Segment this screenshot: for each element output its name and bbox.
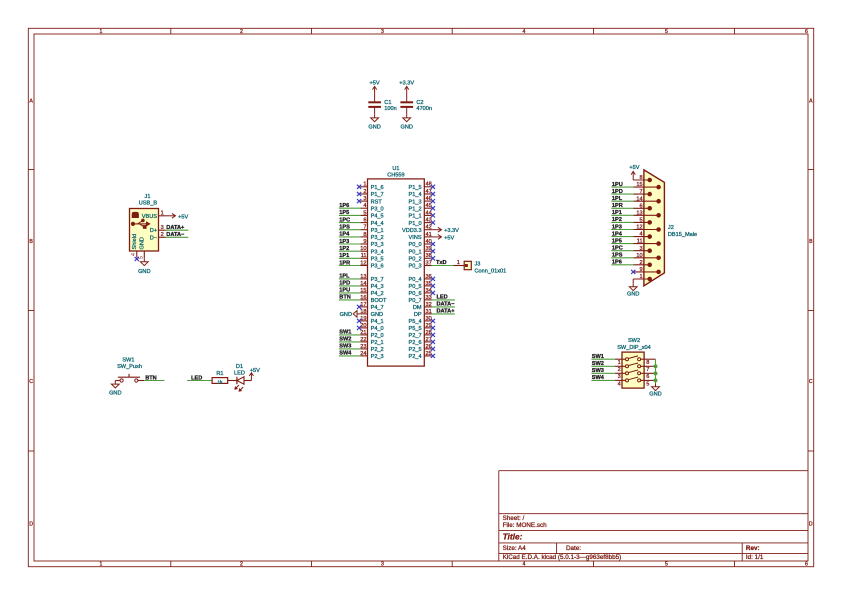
wire net 1PU (U1 pin 15) <box>339 292 360 294</box>
svg-text:P0_2: P0_2 <box>409 257 422 263</box>
svg-text:P2_7: P2_7 <box>409 333 422 339</box>
svg-text:P4_5: P4_5 <box>371 214 384 220</box>
svg-text:Conn_01x01: Conn_01x01 <box>475 268 507 274</box>
svg-text:P1_5: P1_5 <box>409 185 422 191</box>
power +3.3V (C2) <box>399 81 414 95</box>
svg-text:BTN: BTN <box>339 295 351 301</box>
svg-text:1PC: 1PC <box>612 246 623 252</box>
svg-text:4: 4 <box>523 562 526 568</box>
svg-text:SW3: SW3 <box>592 368 604 374</box>
svg-text:SW1: SW1 <box>339 330 351 336</box>
svg-text:46: 46 <box>426 196 432 202</box>
svg-text:2: 2 <box>618 367 621 373</box>
svg-text:P1_3: P1_3 <box>409 199 422 205</box>
svg-text:1P2: 1P2 <box>339 246 349 252</box>
svg-text:P0_4: P0_4 <box>409 277 422 283</box>
svg-text:36: 36 <box>426 274 432 280</box>
svg-text:P3_0: P3_0 <box>371 206 384 212</box>
svg-text:SW1: SW1 <box>592 354 604 360</box>
label 1P2 <box>339 246 349 252</box>
label 1P5 (J2) <box>612 238 622 244</box>
svg-text:41: 41 <box>426 232 432 238</box>
label 1P4 <box>339 232 350 238</box>
svg-text:J1: J1 <box>145 194 151 200</box>
svg-text:P2_6: P2_6 <box>409 340 422 346</box>
svg-text:48: 48 <box>426 182 432 188</box>
svg-text:47: 47 <box>426 189 432 195</box>
svg-text:P4_1: P4_1 <box>371 319 384 325</box>
label 1P5 <box>339 210 349 216</box>
svg-text:GND: GND <box>400 125 412 131</box>
wire net 1PS (U1 pin 7) <box>339 229 360 231</box>
svg-text:P0_1: P0_1 <box>409 249 422 255</box>
svg-text:P3_7: P3_7 <box>371 277 384 283</box>
svg-text:J3: J3 <box>475 262 481 268</box>
svg-text:P4_0: P4_0 <box>371 326 384 332</box>
svg-text:33: 33 <box>426 295 432 301</box>
svg-text:SW4: SW4 <box>592 375 605 381</box>
wire net SW3 (U1 pin 23) <box>339 348 360 350</box>
svg-text:40: 40 <box>426 239 432 245</box>
svg-text:7: 7 <box>363 225 366 231</box>
svg-text:P0_3: P0_3 <box>409 264 422 270</box>
svg-text:P4_4: P4_4 <box>371 221 384 227</box>
junction SW2 pin 7 <box>654 365 658 369</box>
svg-text:KiCad E.D.A. kicad (5.0.1-3—g: KiCad E.D.A. kicad (5.0.1-3—g963ef8bb5) <box>503 554 622 561</box>
SW2 switch elements and pins <box>615 356 656 387</box>
label 1P1 <box>339 253 349 259</box>
svg-text:P2_0: P2_0 <box>371 333 384 339</box>
svg-text:1: 1 <box>100 29 103 35</box>
svg-text:18: 18 <box>360 309 366 315</box>
svg-text:4700n: 4700n <box>416 106 432 112</box>
wire net 1P6 (J2 pin 2) <box>611 264 633 266</box>
title block <box>499 471 808 561</box>
svg-text:1PL: 1PL <box>339 274 350 280</box>
label 1PC <box>339 217 350 223</box>
svg-text:Size: A4: Size: A4 <box>503 545 527 552</box>
svg-text:4: 4 <box>523 29 526 35</box>
svg-text:P3_1: P3_1 <box>371 228 384 234</box>
svg-text:1: 1 <box>100 562 103 568</box>
svg-text:Sheet: /: Sheet: / <box>503 515 525 522</box>
svg-text:Rev:: Rev: <box>746 545 760 552</box>
svg-text:1PR: 1PR <box>339 260 350 266</box>
svg-text:1: 1 <box>161 210 164 216</box>
svg-text:D1: D1 <box>236 364 243 370</box>
svg-text:1PU: 1PU <box>612 182 623 188</box>
svg-text:P0_0: P0_0 <box>409 242 422 248</box>
svg-text:P1_0: P1_0 <box>409 221 422 227</box>
wire net SW1 (SW2 pin 1) <box>591 358 615 360</box>
svg-text:D: D <box>809 522 813 528</box>
svg-text:19: 19 <box>360 316 366 322</box>
svg-text:C: C <box>809 379 813 385</box>
wire net SW3 (SW2 pin 3) <box>591 372 615 374</box>
switch SW1 SW_Push <box>115 358 144 383</box>
label 1PR (J2) <box>612 203 623 209</box>
svg-text:43: 43 <box>426 218 432 224</box>
svg-text:32: 32 <box>426 302 432 308</box>
svg-text:GND: GND <box>140 237 146 249</box>
svg-text:GND: GND <box>368 125 380 131</box>
svg-text:3: 3 <box>639 246 642 252</box>
label DATA- (J1) <box>166 232 185 238</box>
svg-text:4: 4 <box>639 232 642 238</box>
svg-text:4: 4 <box>618 381 621 387</box>
wire net 1PR (J2 pin 6) <box>611 207 633 209</box>
svg-text:1PD: 1PD <box>339 281 350 287</box>
connector J1 USB_B <box>130 194 166 259</box>
wire net TxD (U1 pin 37 to J3) <box>432 265 454 267</box>
svg-text:5: 5 <box>665 29 668 35</box>
svg-text:LED: LED <box>234 370 245 376</box>
wire net 1PS (J2 pin 10) <box>611 257 633 259</box>
svg-text:28: 28 <box>426 330 432 336</box>
svg-text:1k: 1k <box>217 379 223 385</box>
svg-text:P0_7: P0_7 <box>409 298 422 304</box>
IC U1 CH559 body <box>368 166 425 366</box>
svg-text:D−: D− <box>150 235 157 241</box>
svg-text:3: 3 <box>161 225 164 231</box>
svg-text:14: 14 <box>636 196 642 202</box>
label SW2 <box>339 337 351 343</box>
svg-text:5: 5 <box>639 218 642 224</box>
svg-text:35: 35 <box>426 281 432 287</box>
svg-text:+5V: +5V <box>178 214 188 220</box>
wire net 1P4 (U1 pin 8) <box>339 236 360 238</box>
svg-text:11: 11 <box>361 253 367 259</box>
svg-text:GND: GND <box>371 312 383 318</box>
svg-text:P2_4: P2_4 <box>409 354 422 360</box>
svg-text:16: 16 <box>360 295 366 301</box>
connector J2 DB15_Male body <box>644 170 697 286</box>
svg-text:A: A <box>29 99 33 105</box>
svg-text:RST: RST <box>371 199 383 205</box>
label 1PL <box>339 274 350 280</box>
label SW1 <box>339 330 351 336</box>
svg-text:BTN: BTN <box>145 375 157 381</box>
ground GND (SW1) <box>109 381 121 397</box>
svg-text:1: 1 <box>618 360 621 366</box>
svg-text:1: 1 <box>639 274 642 280</box>
svg-text:1P1: 1P1 <box>612 210 622 216</box>
svg-text:17: 17 <box>360 302 366 308</box>
svg-text:DATA+: DATA+ <box>166 225 185 231</box>
capacitor C2 4700n <box>400 100 432 112</box>
svg-text:1PS: 1PS <box>612 253 623 259</box>
label 1PU (J2) <box>612 182 623 188</box>
svg-text:8: 8 <box>363 232 366 238</box>
svg-text:37: 37 <box>426 260 432 266</box>
power +5V (J2 pin 8) <box>629 165 639 180</box>
junction SW2 pin 5 <box>654 379 658 383</box>
U1 left pins 1-24 with numbers and names <box>360 182 387 360</box>
ground GND (J1) <box>138 258 150 275</box>
label SW1 (SW2) <box>592 354 604 360</box>
svg-text:P3_4: P3_4 <box>371 249 384 255</box>
svg-text:9: 9 <box>639 267 642 273</box>
svg-text:Title:: Title: <box>503 531 523 541</box>
svg-text:P0_5: P0_5 <box>409 284 422 290</box>
wire net 1P3 (U1 pin 9) <box>339 243 360 245</box>
svg-text:USB_B: USB_B <box>139 201 158 207</box>
svg-text:22: 22 <box>360 337 366 343</box>
svg-text:B: B <box>29 239 33 245</box>
svg-text:J2: J2 <box>668 225 674 231</box>
label 1P3 (J2) <box>612 224 622 230</box>
svg-text:SW_Push: SW_Push <box>117 364 142 370</box>
svg-text:1P6: 1P6 <box>339 203 349 209</box>
svg-text:VINS: VINS <box>409 235 422 241</box>
wire net 1P1 (U1 pin 11) <box>339 257 360 259</box>
label 1P2 (J2) <box>612 217 622 223</box>
svg-text:1PL: 1PL <box>612 196 623 202</box>
label DATA− <box>437 302 456 308</box>
power +3.3V (U1 pin 42 VDD3.3) <box>432 227 460 234</box>
svg-text:SW1: SW1 <box>122 358 134 364</box>
svg-text:10: 10 <box>636 253 642 259</box>
svg-text:VDD3.3: VDD3.3 <box>402 228 422 234</box>
svg-text:13: 13 <box>636 210 642 216</box>
svg-text:1P4: 1P4 <box>612 231 623 237</box>
svg-text:3: 3 <box>618 374 621 380</box>
wire net 1P2 (J2 pin 5) <box>611 221 633 223</box>
svg-text:P2_5: P2_5 <box>409 347 422 353</box>
svg-text:D+: D+ <box>150 228 157 234</box>
wire net 1PR (U1 pin 12) <box>339 265 360 267</box>
svg-text:4: 4 <box>363 203 366 209</box>
svg-text:3: 3 <box>381 29 384 35</box>
svg-text:5: 5 <box>665 562 668 568</box>
wire net BTN (U1 pin 16) <box>339 299 360 301</box>
wire net 1P3 (J2 pin 12) <box>611 229 633 231</box>
connector J3 Conn_01x01 <box>454 260 507 274</box>
svg-text:P0_6: P0_6 <box>409 291 422 297</box>
svg-text:R1: R1 <box>216 371 223 377</box>
wire net LED (to R1) <box>187 380 212 382</box>
ground GND (C1) <box>368 107 380 131</box>
wire net 1PC (J2 pin 3) <box>611 250 633 252</box>
label 1P1 (J2) <box>612 210 622 216</box>
LED diode D1 <box>234 364 245 391</box>
svg-text:CH559: CH559 <box>387 172 404 178</box>
svg-text:P1_1: P1_1 <box>409 214 422 220</box>
svg-text:5: 5 <box>139 256 145 259</box>
svg-text:7: 7 <box>639 189 642 195</box>
svg-text:1PU: 1PU <box>339 288 350 294</box>
svg-text:39: 39 <box>426 246 432 252</box>
svg-text:GND: GND <box>340 312 352 318</box>
svg-text:5: 5 <box>363 210 366 216</box>
svg-text:SW2: SW2 <box>628 338 640 344</box>
label DATA+ <box>437 309 456 315</box>
label 1PD (J2) <box>612 189 623 195</box>
label 1P4 (J2) <box>612 231 623 237</box>
ground GND (J2 pin 1) <box>627 279 639 297</box>
svg-text:+5V: +5V <box>250 368 260 374</box>
svg-text:2: 2 <box>639 260 642 266</box>
wire net DATA− (U1 pin 32) <box>432 306 455 308</box>
wire R1 to D1 <box>228 380 237 382</box>
svg-text:SW_DIP_x04: SW_DIP_x04 <box>617 345 651 351</box>
svg-text:P4_7: P4_7 <box>371 305 384 311</box>
svg-text:BOOT: BOOT <box>371 298 387 304</box>
svg-text:U1: U1 <box>392 166 399 172</box>
svg-text:20: 20 <box>360 323 366 329</box>
label LED (net) <box>191 375 202 381</box>
svg-text:6: 6 <box>639 203 642 209</box>
svg-text:1: 1 <box>363 182 366 188</box>
svg-text:DATA+: DATA+ <box>437 309 456 315</box>
wire net DATA+ (J1 D+) <box>166 229 189 231</box>
svg-text:1: 1 <box>457 260 460 266</box>
wire net SW4 (U1 pin 24) <box>339 355 360 357</box>
svg-text:GND: GND <box>138 269 150 275</box>
svg-text:4: 4 <box>131 253 137 256</box>
svg-text:1P6: 1P6 <box>612 260 622 266</box>
wire net 1PL (J2 pin 14) <box>611 200 633 202</box>
label BTN <box>339 295 351 301</box>
wire net SW2 (SW2 pin 2) <box>591 365 615 367</box>
svg-text:42: 42 <box>426 225 432 231</box>
label 1PU <box>339 288 350 294</box>
svg-text:P4_2: P4_2 <box>371 291 384 297</box>
label TxD <box>436 260 447 266</box>
svg-text:12: 12 <box>360 260 366 266</box>
svg-text:C: C <box>29 379 33 385</box>
svg-text:LED: LED <box>437 295 448 301</box>
label 1PS (J2) <box>612 253 623 259</box>
svg-text:1P3: 1P3 <box>612 224 622 230</box>
svg-text:2: 2 <box>240 29 243 35</box>
svg-text:P3_6: P3_6 <box>371 264 384 270</box>
svg-text:1PC: 1PC <box>339 217 350 223</box>
wire +3.3V to C2 <box>406 95 408 102</box>
svg-text:DB15_Male: DB15_Male <box>668 232 697 238</box>
svg-text:12: 12 <box>636 225 642 231</box>
svg-text:1P1: 1P1 <box>339 253 349 259</box>
power +5V (D1) <box>249 368 260 381</box>
svg-text:P1_2: P1_2 <box>409 206 422 212</box>
svg-text:10: 10 <box>360 246 366 252</box>
power +5V (U1 pin 41 VINS) <box>432 235 455 242</box>
svg-text:P2_2: P2_2 <box>371 347 384 353</box>
wire net LED (U1 pin 33) <box>432 299 455 301</box>
svg-text:1P4: 1P4 <box>339 232 350 238</box>
svg-text:LED: LED <box>191 375 202 381</box>
label 1PC (J2) <box>612 246 623 252</box>
label 1PS <box>339 225 350 231</box>
wire net BTN (SW1) <box>144 380 164 382</box>
wire net 1P2 (U1 pin 10) <box>339 250 360 252</box>
svg-text:23: 23 <box>360 344 366 350</box>
wire net 1PU (J2 pin 15) <box>611 186 633 188</box>
svg-text:3: 3 <box>381 562 384 568</box>
wire net 1P4 (J2 pin 4) <box>611 236 633 238</box>
svg-text:D: D <box>29 522 33 528</box>
wire net 1PD (U1 pin 14) <box>339 285 360 287</box>
label SW3 <box>339 344 351 350</box>
svg-text:+5V: +5V <box>444 235 454 241</box>
svg-text:DATA−: DATA− <box>437 302 456 308</box>
svg-text:6: 6 <box>363 218 366 224</box>
svg-text:6: 6 <box>646 374 649 380</box>
svg-text:8: 8 <box>646 360 649 366</box>
svg-text:P3_5: P3_5 <box>371 257 384 263</box>
svg-text:P2_3: P2_3 <box>371 354 384 360</box>
svg-text:P1_6: P1_6 <box>371 185 384 191</box>
wire +5V to C1 <box>374 95 376 102</box>
wire net SW4 (SW2 pin 4) <box>591 379 615 381</box>
svg-text:GND: GND <box>627 291 639 297</box>
svg-text:Id: 1/1: Id: 1/1 <box>746 554 764 561</box>
ground GND (C2) <box>400 107 412 131</box>
svg-text:SW2: SW2 <box>339 337 351 343</box>
wire D1 to +5V <box>244 380 251 382</box>
label SW4 <box>339 351 352 357</box>
svg-text:1PR: 1PR <box>612 203 623 209</box>
svg-text:+5V: +5V <box>629 165 639 171</box>
svg-text:1PS: 1PS <box>339 225 350 231</box>
wire net 1P6 (U1 pin 4) <box>339 207 360 209</box>
wire net 1PL (U1 pin 13) <box>339 278 360 280</box>
label BTN <box>145 375 157 381</box>
wire net DATA+ (U1 pin 31) <box>432 313 455 315</box>
svg-text:GND: GND <box>109 390 121 396</box>
svg-text:SW4: SW4 <box>339 351 352 357</box>
wire net SW1 (U1 pin 21) <box>339 334 360 336</box>
resistor R1 1k <box>212 371 228 385</box>
svg-text:27: 27 <box>426 337 432 343</box>
svg-text:34: 34 <box>426 288 432 294</box>
power +5V (C1) <box>370 81 380 95</box>
svg-text:1P5: 1P5 <box>339 210 349 216</box>
svg-text:P1_7: P1_7 <box>371 192 384 198</box>
power +5V (J1 VBUS) <box>166 213 189 220</box>
svg-text:P3_3: P3_3 <box>371 242 384 248</box>
label LED <box>437 295 448 301</box>
svg-text:1P3: 1P3 <box>339 239 349 245</box>
svg-text:44: 44 <box>426 210 432 216</box>
svg-text:1P5: 1P5 <box>612 238 622 244</box>
svg-text:29: 29 <box>426 323 432 329</box>
svg-text:15: 15 <box>360 288 366 294</box>
svg-text:P5_4: P5_4 <box>409 319 422 325</box>
svg-text:DATA−: DATA− <box>166 232 185 238</box>
switch SW2 SW_DIP_x04 body <box>617 338 651 388</box>
svg-text:38: 38 <box>426 253 432 259</box>
svg-text:+5V: +5V <box>370 81 380 87</box>
svg-text:8: 8 <box>639 175 642 181</box>
svg-text:26: 26 <box>426 344 432 350</box>
svg-text:A: A <box>809 99 813 105</box>
svg-text:P5_5: P5_5 <box>409 326 422 332</box>
label SW4 (SW2) <box>592 375 605 381</box>
wire SW2 common bus to GND <box>655 359 657 383</box>
U1 no-connects right pins <box>431 185 435 358</box>
svg-text:25: 25 <box>426 351 432 357</box>
ground GND (SW2) <box>649 383 661 397</box>
svg-text:6: 6 <box>805 562 808 568</box>
svg-text:P2_1: P2_1 <box>371 340 384 346</box>
svg-text:2: 2 <box>161 232 164 238</box>
capacitor C1 100n <box>368 100 396 112</box>
svg-text:100n: 100n <box>384 106 396 112</box>
svg-text:2: 2 <box>240 562 243 568</box>
label 1P3 <box>339 239 349 245</box>
label DATA+ (J1) <box>166 225 185 231</box>
